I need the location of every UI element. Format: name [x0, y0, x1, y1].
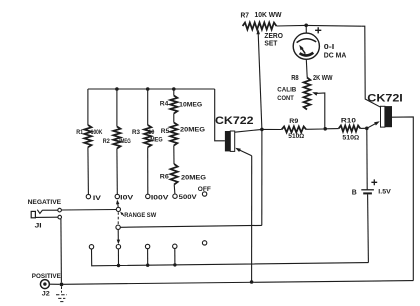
svg-text:JI: JI: [35, 223, 42, 230]
battery B 1.5V: [361, 190, 374, 195]
svg-text:I00V: I00V: [151, 194, 170, 201]
resistor R3 10 MEG: [144, 89, 151, 194]
contact switch lower: [58, 215, 62, 219]
svg-text:2K WW: 2K WW: [313, 75, 333, 82]
node rail R4 junction: [172, 87, 176, 91]
resistor R4 10MEG: [170, 89, 177, 114]
range switch pole 2 wiper: [116, 225, 120, 244]
wire CK722 base lead: [215, 89, 225, 141]
wire meter bottom lead: [305, 59, 308, 77]
svg-text:RANGE SW: RANGE SW: [124, 212, 156, 219]
wire collector junction down: [261, 129, 263, 225]
svg-text:10MEG: 10MEG: [179, 102, 202, 109]
svg-text:R9: R9: [289, 118, 298, 125]
resistor R7: [243, 23, 277, 30]
svg-text:SET: SET: [264, 38, 278, 47]
node meter top junction: [304, 24, 308, 28]
resistor R6 20MEG: [171, 146, 178, 195]
wire lower contact down to J2 node: [60, 219, 63, 283]
svg-text:510Ω: 510Ω: [342, 135, 359, 142]
wire CK721 base to right rail: [392, 117, 413, 281]
svg-text:I0V: I0V: [120, 195, 134, 202]
svg-text:20MEG: 20MEG: [180, 126, 205, 133]
ground symbol: [56, 286, 67, 301]
svg-text:R4: R4: [160, 101, 169, 108]
wire right descent to CK721 collector: [362, 26, 381, 107]
wire top rail right segment to corner: [305, 24, 362, 27]
wire battery bottom to bus: [367, 194, 370, 262]
wire meter top lead: [305, 25, 307, 33]
wire battery top lead: [366, 128, 368, 189]
node rail R3 junction: [146, 87, 150, 91]
wire J1 sleeve to contact: [35, 216, 57, 218]
label RANGE SW: [120, 212, 156, 219]
wire CK722 collector lead: [235, 129, 262, 132]
resistor R2 1MEG: [113, 89, 120, 194]
contact pole2 OFF position: [202, 241, 206, 245]
wire J2 to junction: [49, 283, 59, 285]
wiper of R8 CALIB CONT: [312, 92, 325, 127]
svg-text:MEG: MEG: [150, 137, 163, 143]
contact pole2 position 3: [145, 244, 149, 248]
svg-text:20MEG: 20MEG: [181, 175, 206, 182]
emitter of CK722 with arrow: [235, 148, 252, 156]
terminal 100V contact: [146, 194, 150, 198]
jack J1 negative input: [31, 210, 42, 218]
svg-text:CALIB: CALIB: [277, 86, 296, 93]
wire common bus line A: [92, 249, 369, 266]
wire R9 left lead: [262, 128, 282, 130]
transistor Q2 CK721: [381, 106, 393, 127]
wire CK722 emitter down: [251, 156, 253, 282]
node bus junction a: [117, 264, 120, 267]
terminal OFF contact: [202, 192, 206, 196]
terminal 1V contact: [86, 194, 90, 198]
meter M 0-1 DC MA: [293, 33, 319, 59]
node R10 emitter battery junction: [365, 127, 369, 131]
resistor R1 100K: [84, 89, 91, 194]
node bus junction c: [173, 263, 176, 266]
wire bottom line B: [63, 281, 413, 285]
contact pole2 position 2: [116, 245, 120, 249]
wire R9 right lead: [306, 128, 323, 130]
wire contact4 stub: [174, 249, 176, 265]
svg-text:CK72I: CK72I: [367, 93, 403, 105]
emitter of CK721 with arrow: [367, 121, 380, 128]
node rail R2 junction: [115, 87, 119, 91]
resistor R10 510 ohm: [339, 126, 361, 132]
resistor R5 20MEG: [170, 114, 177, 146]
terminal 500V contact: [173, 194, 177, 198]
contact switch upper: [58, 208, 62, 212]
svg-text:R7: R7: [241, 11, 250, 20]
node J2 ground junction: [60, 283, 64, 287]
svg-text:R10: R10: [341, 118, 356, 125]
svg-text:10: 10: [148, 130, 155, 136]
jack J2 positive input: [40, 280, 49, 289]
svg-text:R5: R5: [161, 128, 170, 135]
wire resistor top rail: [88, 88, 215, 90]
svg-text:IV: IV: [93, 195, 102, 202]
resistor R8 2K WW rheostat: [304, 78, 311, 110]
svg-text:R8: R8: [291, 75, 299, 82]
label ZERO SET: [264, 31, 283, 47]
wire J1 tip to contact: [43, 209, 58, 211]
svg-text:100K: 100K: [91, 130, 103, 136]
svg-text:OFF: OFF: [198, 186, 211, 193]
label + polarity of battery: [371, 179, 377, 185]
gang link dashed line: [117, 212, 119, 225]
svg-text:POSITIVE: POSITIVE: [32, 273, 61, 280]
label CALIB CONT: [277, 86, 296, 102]
wire R10 left lead: [325, 128, 339, 130]
contact pole2 position 4: [173, 244, 177, 248]
wire contact2 stub: [117, 249, 119, 266]
svg-text:500V: 500V: [179, 194, 198, 201]
potentiometer wiper arrow of R7 ZERO SET: [256, 29, 262, 129]
node CK722 collector junction: [260, 128, 264, 132]
svg-text:CONT: CONT: [277, 95, 294, 102]
svg-text:J2: J2: [42, 291, 50, 298]
contact pole2 position 1: [89, 245, 93, 249]
svg-text:B: B: [352, 189, 357, 196]
svg-text:R2: R2: [103, 139, 111, 145]
wire top rail from R7 to meter junction: [276, 24, 305, 27]
node R9 R10 junction: [323, 127, 327, 131]
resistor R9 510 ohm: [282, 126, 306, 132]
svg-text:CK722: CK722: [215, 115, 254, 127]
svg-text:NEGATIVE: NEGATIVE: [28, 199, 62, 206]
svg-text:R1: R1: [76, 130, 84, 136]
svg-text:10K WW: 10K WW: [255, 10, 282, 19]
range switch pole 1 wiper: [116, 200, 121, 212]
wire upper contact to pole1 pivot: [61, 209, 116, 212]
svg-text:I.5V: I.5V: [378, 189, 391, 196]
svg-text:510Ω: 510Ω: [288, 133, 304, 140]
svg-text:R6: R6: [160, 174, 169, 181]
svg-text:IMEG: IMEG: [119, 139, 131, 145]
node emitter to line B junction: [250, 280, 254, 284]
svg-text:DC MA: DC MA: [324, 53, 347, 60]
terminal 10V contact: [115, 194, 119, 198]
wire contact3 stub: [147, 249, 149, 266]
label + polarity of meter: [315, 27, 321, 33]
wire R10 right lead: [360, 127, 365, 129]
wire pole2 wiper to collector junction: [120, 225, 261, 227]
svg-text:0-I: 0-I: [324, 44, 335, 51]
node bus junction b: [146, 264, 149, 267]
transistor Q1 CK722: [225, 131, 235, 151]
label 10 MEG value of R3: [148, 130, 163, 143]
svg-text:R3: R3: [132, 130, 141, 136]
